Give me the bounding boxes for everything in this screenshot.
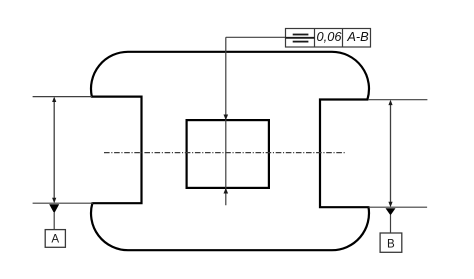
centerline (dash-dot) xyxy=(104,152,345,154)
datum B leader xyxy=(390,215,392,233)
leader arrow down at square top xyxy=(224,115,229,121)
svg-text:A-B: A-B xyxy=(346,29,369,44)
right dim arrow up xyxy=(388,100,392,105)
datum A box xyxy=(45,230,65,248)
datum B triangle xyxy=(386,208,396,215)
right bottom extension line xyxy=(369,206,428,208)
datum A leader xyxy=(53,213,55,230)
right top extension line xyxy=(368,99,427,101)
svg-text:B: B xyxy=(387,237,395,250)
left dim arrow down xyxy=(52,198,56,203)
FCF leader horizontal xyxy=(226,36,286,38)
right dim arrow down xyxy=(388,202,392,207)
symmetry symbol xyxy=(293,34,309,36)
leader arrow up at square bottom xyxy=(224,188,229,194)
svg-text:0,06: 0,06 xyxy=(317,29,343,44)
datum B box xyxy=(380,233,402,252)
part outline: obround with left and right rectangular notches xyxy=(91,52,369,250)
left top extension line xyxy=(33,96,92,98)
left bottom extension line xyxy=(33,202,93,204)
FCF leader vertical xyxy=(225,37,227,205)
feature control frame xyxy=(286,29,371,48)
left dimension line xyxy=(53,99,55,201)
center square (slot) xyxy=(187,120,269,188)
right dimension line xyxy=(390,102,392,205)
left dim arrow up xyxy=(52,97,56,102)
datum A triangle xyxy=(49,204,59,213)
svg-text:A: A xyxy=(51,233,59,246)
